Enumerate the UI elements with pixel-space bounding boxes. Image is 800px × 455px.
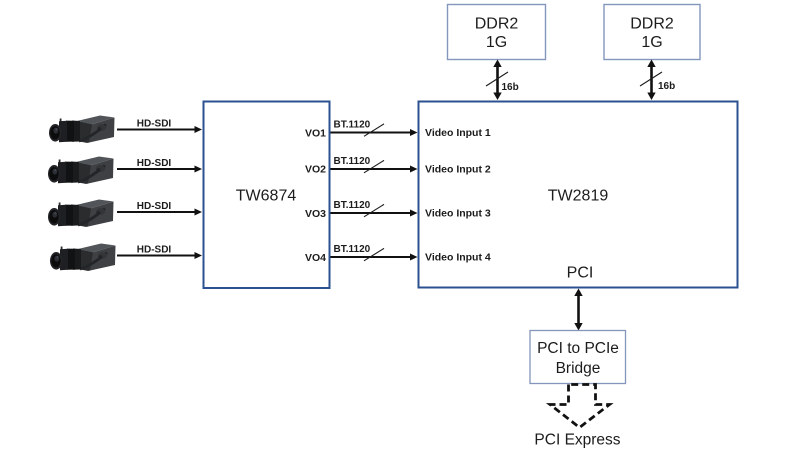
wire VO2 to TW2819 — [331, 160, 418, 172]
svg-text:DDR2: DDR2 — [475, 16, 519, 33]
svg-text:PCI: PCI — [567, 265, 594, 282]
svg-text:VO2: VO2 — [305, 164, 326, 176]
wire VO4 to TW2819 — [331, 248, 418, 260]
wire HD-SDI 4 — [117, 252, 202, 259]
block TW2819 — [419, 102, 738, 288]
bus DDR2 right to TW2819 — [640, 60, 662, 101]
bus DDR2 left to TW2819 — [486, 60, 508, 101]
svg-text:HD-SDI: HD-SDI — [137, 119, 172, 130]
svg-text:1G: 1G — [641, 34, 662, 51]
svg-text:PCI to PCIe: PCI to PCIe — [537, 340, 619, 357]
wire VO1 to TW2819 — [331, 124, 418, 136]
svg-text:Video Input 1: Video Input 1 — [425, 127, 491, 139]
svg-text:Bridge: Bridge — [556, 360, 601, 377]
wire HD-SDI 2 — [117, 166, 202, 173]
wire HD-SDI 1 — [117, 126, 202, 133]
svg-text:Video Input 2: Video Input 2 — [425, 164, 491, 176]
camera 3 — [48, 200, 114, 228]
block DDR2 1G left — [448, 5, 546, 60]
block PCI to PCIe Bridge — [530, 331, 626, 384]
camera 2 — [48, 157, 114, 185]
svg-text:TW2819: TW2819 — [548, 188, 609, 205]
svg-text:BT.1120: BT.1120 — [334, 244, 371, 255]
wire HD-SDI 3 — [117, 209, 202, 216]
dashed block arrow PCI Express — [550, 385, 610, 428]
svg-text:HD-SDI: HD-SDI — [137, 158, 172, 169]
svg-text:VO1: VO1 — [305, 128, 326, 140]
svg-text:VO4: VO4 — [305, 252, 326, 264]
svg-text:16b: 16b — [658, 81, 675, 92]
svg-text:16b: 16b — [502, 82, 519, 93]
block DDR2 1G right — [604, 5, 700, 60]
camera 4 — [50, 244, 116, 272]
svg-text:1G: 1G — [486, 34, 507, 51]
camera 1 — [49, 116, 115, 144]
svg-text:PCI Express: PCI Express — [534, 432, 620, 449]
svg-text:DDR2: DDR2 — [630, 16, 674, 33]
svg-text:TW6874: TW6874 — [236, 188, 297, 205]
svg-text:Video Input 3: Video Input 3 — [425, 208, 491, 220]
svg-text:BT.1120: BT.1120 — [334, 156, 371, 167]
svg-text:BT.1120: BT.1120 — [334, 200, 371, 211]
block TW6874 — [204, 102, 330, 289]
wire VO3 to TW2819 — [331, 204, 418, 216]
svg-text:BT.1120: BT.1120 — [334, 120, 371, 131]
svg-text:HD-SDI: HD-SDI — [137, 245, 172, 256]
svg-text:VO3: VO3 — [305, 208, 326, 220]
bus PCI TW2819 to bridge — [574, 289, 582, 331]
svg-text:HD-SDI: HD-SDI — [137, 201, 172, 212]
svg-text:Video Input 4: Video Input 4 — [425, 252, 491, 264]
